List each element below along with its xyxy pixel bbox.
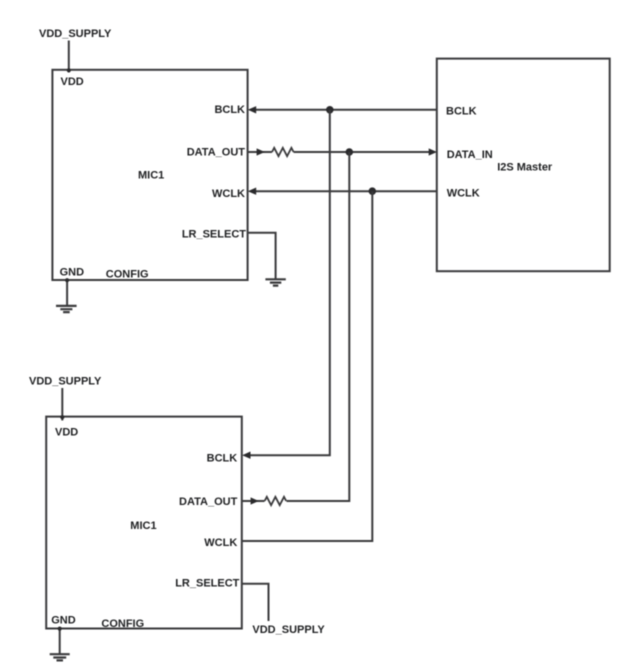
svg-text:CONFIG: CONFIG xyxy=(106,269,149,281)
bus wire BCLK down to bottom MIC1 xyxy=(249,110,330,455)
resistor (series on DATA_OUT, bottom) xyxy=(265,497,287,505)
svg-text:LR_SELECT: LR_SELECT xyxy=(182,228,246,240)
arrowhead DATA_IN into I2S Master xyxy=(429,148,437,155)
svg-text:BCLK: BCLK xyxy=(214,104,245,116)
wire resistor to I2S DATA_IN xyxy=(294,151,433,153)
svg-text:VDD: VDD xyxy=(55,427,78,439)
svg-text:BCLK: BCLK xyxy=(207,452,238,464)
svg-text:VDD: VDD xyxy=(61,76,84,88)
wire LR_SELECT (bottom MIC1) to VDD_SUPPLY xyxy=(242,584,269,621)
svg-text:GND: GND xyxy=(60,267,85,279)
junction VDD pin at bottom MIC1 edge xyxy=(60,415,64,419)
svg-text:BCLK: BCLK xyxy=(446,106,477,118)
wire VDD_SUPPLY to bottom MIC1 VDD pin xyxy=(61,388,63,421)
svg-text:MIC1: MIC1 xyxy=(138,170,164,182)
svg-text:VDD_SUPPLY: VDD_SUPPLY xyxy=(29,375,102,387)
arrowhead BCLK into top MIC1 xyxy=(248,106,256,113)
svg-text:DATA_IN: DATA_IN xyxy=(447,149,493,161)
svg-text:GND: GND xyxy=(51,614,75,626)
microphone MIC1 (bottom) body xyxy=(46,417,242,629)
wire DATA_OUT from bottom MIC1 to resistor xyxy=(242,500,265,502)
wire DATA_OUT from top MIC1 to resistor xyxy=(248,151,272,153)
junction GND pin at top MIC1 edge xyxy=(65,278,69,282)
ground (top LR_SELECT) xyxy=(265,279,285,285)
arrowhead WCLK into top MIC1 xyxy=(248,188,256,195)
arrowhead DATA_OUT out of top MIC1 xyxy=(257,148,265,155)
svg-text:WCLK: WCLK xyxy=(447,188,480,200)
svg-text:WCLK: WCLK xyxy=(212,188,245,200)
arrowhead BCLK into bottom MIC1 xyxy=(242,452,250,459)
bus wire DATA down to bottom MIC1 resistor xyxy=(287,152,350,501)
ground (top MIC1 GND) xyxy=(56,306,77,312)
junction WCLK bus node xyxy=(369,187,377,195)
arrowhead DATA_OUT out of bottom MIC1 xyxy=(251,497,259,504)
svg-text:WCLK: WCLK xyxy=(204,537,237,549)
junction DATA bus node xyxy=(346,148,354,156)
ground (bottom MIC1 GND) xyxy=(50,654,70,660)
wire LR_SELECT (top MIC1) to ground xyxy=(248,233,276,279)
svg-text:VDD_SUPPLY: VDD_SUPPLY xyxy=(39,28,112,40)
wire WCLK net (I2S Master to top MIC1) xyxy=(252,190,437,192)
wire GND pin (bottom MIC1) to ground xyxy=(59,629,61,655)
svg-text:I2S Master: I2S Master xyxy=(497,161,553,173)
junction VDD pin at top MIC1 edge xyxy=(67,68,71,72)
IC I2S Master body xyxy=(437,59,610,272)
microphone MIC1 (top) body xyxy=(52,70,247,280)
bus wire WCLK down to bottom MIC1 xyxy=(242,191,372,541)
wire BCLK net (I2S Master to top MIC1) xyxy=(252,109,437,111)
wire GND pin (top MIC1) to ground xyxy=(66,280,68,306)
svg-text:DATA_OUT: DATA_OUT xyxy=(179,496,238,508)
svg-text:LR_SELECT: LR_SELECT xyxy=(175,578,239,590)
svg-text:DATA_OUT: DATA_OUT xyxy=(187,146,246,158)
svg-text:CONFIG: CONFIG xyxy=(101,618,144,630)
svg-text:MIC1: MIC1 xyxy=(130,520,156,532)
svg-text:VDD_SUPPLY: VDD_SUPPLY xyxy=(252,624,325,636)
resistor (series on DATA_OUT, top) xyxy=(272,148,294,156)
junction GND pin at bottom MIC1 edge xyxy=(58,627,62,631)
junction BCLK bus node xyxy=(326,106,334,114)
wire VDD_SUPPLY to top MIC1 VDD pin xyxy=(68,41,70,73)
